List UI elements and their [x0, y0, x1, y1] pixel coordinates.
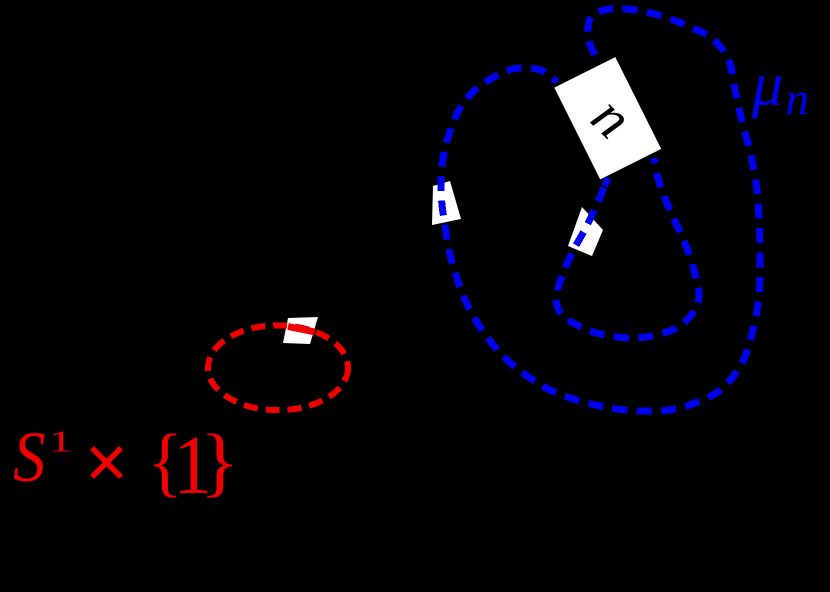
svg-text:S: S — [13, 417, 45, 497]
wire: blue dashed outer curve of mu_n — [441, 8, 760, 411]
marker tick on red ellipse (white patch under ellipse stroke) — [283, 317, 318, 344]
times sign — [92, 448, 121, 477]
red dashed ellipse S1 x (1) — [208, 325, 348, 410]
svg-text:μ: μ — [751, 51, 783, 119]
red tick dash across ellipse marker — [288, 327, 315, 333]
svg-text:}: } — [200, 420, 240, 505]
svg-text:1: 1 — [49, 424, 73, 459]
marker tick 2 (white patch under small-loop strand) — [568, 207, 603, 256]
blue dash fragment at box bottom corner — [605, 178, 609, 186]
svg-text:n: n — [786, 74, 810, 126]
marker tick 1 (white patch under left strand of mu_n curve) — [432, 181, 461, 225]
twist box n (white rotated rectangle) — [554, 57, 661, 179]
wire: blue dashed inner small loop of mu_n below twist box — [556, 158, 699, 338]
